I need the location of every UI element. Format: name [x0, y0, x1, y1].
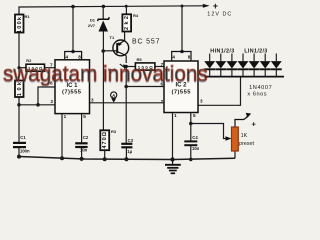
resistor R3 470 ohm — [100, 129, 117, 150]
junction rail / IC1 supply drop — [71, 5, 75, 9]
watermark swagatam innovations — [3, 60, 208, 87]
IC U2: IC2 (7)555 timer — [160, 52, 203, 119]
wire zener to base node and down to R3 — [102, 32, 104, 131]
junction pin2/pin6 riser node — [36, 103, 40, 107]
resistor R4 2k2 — [122, 13, 138, 32]
wire pin2 node horizontal — [19, 104, 55, 106]
capacitor C3 1u — [121, 138, 133, 154]
svg-text:470Ω: 470Ω — [102, 131, 108, 148]
junction rail / C3 — [124, 157, 128, 161]
junction rail / IC1 pin1 — [60, 156, 64, 160]
junction collector / IC2 pin6 — [124, 85, 128, 89]
svg-text:R1: R1 — [25, 14, 31, 19]
capacitor C2 10n — [75, 135, 89, 153]
wire IC2 pin5 to C4 — [190, 113, 192, 142]
svg-text:LIN1/2/3: LIN1/2/3 — [244, 48, 267, 54]
svg-text:C1: C1 — [20, 135, 26, 140]
wire diode cathode bus — [205, 76, 285, 78]
svg-text:8: 8 — [188, 54, 191, 59]
svg-text:x 6nos: x 6nos — [247, 92, 266, 98]
svg-text:+: + — [213, 1, 218, 11]
svg-text:12V DC: 12V DC — [207, 11, 231, 17]
svg-text:swagatam innovations: swagatam innovations — [3, 60, 208, 86]
supply arrow +12V DC — [203, 1, 232, 18]
wire IC2 pin1 to rail — [172, 113, 174, 160]
svg-text:(7)555: (7)555 — [62, 90, 82, 96]
junction rail / C2 — [80, 157, 84, 161]
resistor R2 100 ohm — [26, 58, 45, 71]
wire IC2 pin3 to diode bus riser — [198, 77, 241, 105]
wire C1 to ground rail — [18, 147, 20, 157]
node A probe marker — [111, 92, 117, 103]
svg-text:HIN1/2/3: HIN1/2/3 — [210, 48, 234, 54]
junction R1-R2 node — [17, 66, 20, 69]
junction IC2 pin5 / wiper feed — [189, 122, 193, 126]
junction rail / IC2 supply drop — [181, 5, 184, 8]
wire left column R1 to R2 node — [18, 33, 20, 81]
IC2 pins 4-8 supply bracket — [172, 52, 191, 62]
svg-text:2V7: 2V7 — [88, 23, 96, 28]
wire wiper feed from pin5 node — [191, 124, 227, 139]
transistor T1 BC557 — [110, 35, 129, 56]
wire preset bottom lead — [234, 151, 236, 158]
resistor R1 100k — [15, 14, 30, 33]
wire R2 stubs — [19, 67, 26, 69]
resistor R5 100 ohm — [135, 57, 155, 70]
svg-text:C2: C2 — [83, 135, 89, 140]
wire C3 to rail — [125, 147, 127, 159]
capacitor C1 100n — [13, 135, 30, 154]
svg-text:4: 4 — [66, 54, 69, 59]
junction rail / ground — [170, 157, 174, 161]
junction IC2 bracket — [180, 50, 184, 54]
svg-text:preset: preset — [239, 141, 254, 147]
wire emitter vertical — [124, 32, 126, 42]
IC1 body box — [55, 60, 90, 114]
diode D5 1N4007 — [238, 54, 249, 77]
junction rail / R4 — [125, 5, 128, 8]
diode D8 1N4007 — [271, 54, 282, 77]
wire IC1 pin3 to IC2 pin2 — [90, 102, 165, 104]
wire IC1 supply drop — [72, 7, 74, 52]
svg-text:1N4007: 1N4007 — [249, 85, 272, 91]
svg-text:2k2: 2k2 — [124, 16, 130, 30]
wire top rail — [19, 6, 204, 15]
wire C4 to rail — [190, 145, 192, 159]
svg-text:3: 3 — [200, 99, 203, 104]
diode D4 1N4007 — [226, 54, 237, 77]
wire zener column top — [102, 6, 104, 19]
junction rail / R3 — [103, 157, 107, 161]
svg-text:T1: T1 — [110, 35, 115, 40]
svg-text:2: 2 — [50, 99, 53, 104]
junction rail / C4 — [189, 158, 193, 162]
potentiometer 1K preset — [226, 113, 257, 151]
IC U1: IC1 (7)555 timer — [50, 52, 94, 120]
junction rail / zener D1 — [102, 5, 106, 9]
diode D3 1N4007 — [215, 54, 226, 77]
diode D7 1N4007 — [260, 54, 271, 77]
junction 10k-C1 node — [17, 103, 21, 107]
junction T1 base / zener — [101, 49, 105, 53]
svg-text:+: + — [252, 120, 257, 129]
svg-text:R3: R3 — [111, 129, 117, 134]
svg-text:1K: 1K — [241, 133, 248, 139]
diode D2 1N4007 — [204, 54, 215, 77]
svg-text:10n: 10n — [192, 146, 200, 151]
svg-text:2: 2 — [161, 99, 164, 104]
wire IC2 pin6 stub — [126, 86, 164, 88]
svg-text:100n: 100n — [20, 149, 30, 154]
wire R5 stubs — [126, 66, 135, 68]
wire left column 10k to C1 — [18, 97, 20, 143]
diode D6 1N4007 — [249, 54, 260, 77]
svg-text:1µ: 1µ — [127, 149, 132, 154]
svg-text:1: 1 — [64, 114, 67, 119]
svg-text:1: 1 — [174, 113, 177, 118]
label 1N4007 x 6nos — [247, 85, 271, 98]
junction collector / R5 — [125, 65, 128, 68]
junction rail / C1 — [17, 155, 21, 159]
svg-text:BC 557: BC 557 — [132, 38, 160, 45]
svg-text:R4: R4 — [133, 13, 139, 18]
resistor 10k — [15, 81, 24, 98]
wire IC1 pin1 to rail — [61, 114, 63, 159]
current arrow 1mA — [108, 64, 128, 72]
svg-text:D1: D1 — [90, 18, 96, 23]
IC1 pins 4-8 supply bracket — [65, 52, 82, 60]
junction IC1 bracket — [71, 50, 75, 54]
wire R3 to rail — [104, 150, 106, 159]
IC2 body box — [164, 61, 198, 113]
ground symbol — [165, 160, 181, 174]
wire ground rail — [19, 157, 235, 160]
wire IC1 pin5 to C2 — [81, 114, 83, 144]
wire collector column — [125, 56, 127, 63]
wire IC2 supply drop — [181, 6, 183, 52]
svg-text:10n: 10n — [80, 148, 88, 153]
wire pin6 riser — [38, 87, 55, 105]
svg-text:100k: 100k — [17, 16, 23, 33]
wire C2 to rail — [81, 147, 83, 159]
capacitor C4 10n — [184, 135, 199, 151]
wire base lead — [103, 50, 117, 52]
svg-text:(7)555: (7)555 — [172, 89, 192, 95]
svg-text:3: 3 — [91, 98, 94, 103]
wire R4 drop from rail — [125, 6, 127, 14]
svg-text:5: 5 — [193, 113, 196, 118]
diode D1 zener 2V7 — [88, 17, 109, 31]
svg-text:4: 4 — [172, 54, 175, 59]
svg-text:5: 5 — [83, 114, 86, 119]
svg-text:8: 8 — [78, 54, 81, 59]
svg-text:C4: C4 — [192, 135, 198, 140]
svg-text:C3: C3 — [128, 138, 134, 143]
